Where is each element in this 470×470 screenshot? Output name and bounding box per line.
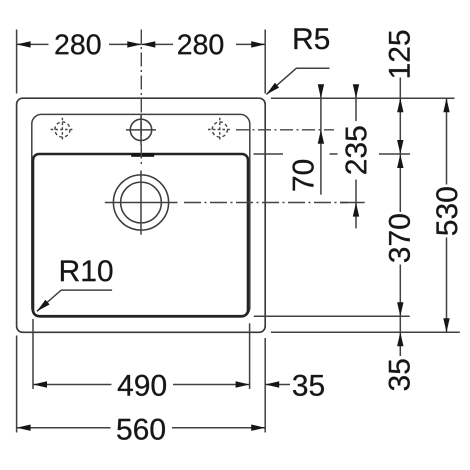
dim line 490 [33, 384, 250, 386]
label 560 [117, 419, 165, 440]
label R10 [61, 260, 112, 281]
extension line bottom sink left [16, 336, 18, 433]
drain crosshair horizontal [105, 202, 178, 204]
label 235 [345, 126, 366, 173]
sink outer outline (560 x 530, R5 corners) [17, 98, 266, 332]
optional tap hole right: crosshair [208, 129, 232, 131]
optional tap hole right: dashed circle [212, 122, 227, 137]
extension line top left [16, 30, 18, 94]
arrow 235 bottom [353, 203, 359, 217]
dim line 35 horizontal [265, 384, 290, 386]
label 530 [436, 187, 457, 235]
dim line 70 [320, 86, 322, 195]
drain inner circle [121, 182, 162, 223]
extension line bowl bottom edge right [254, 315, 410, 317]
arrow 370 top [397, 154, 403, 168]
arrow 70 top [318, 84, 324, 98]
tap centerline horizontal (dash-dot) [236, 129, 334, 131]
arrow 490 left [33, 381, 47, 387]
arrow 530 bottom [443, 318, 449, 332]
optional tap hole left: crosshair [51, 129, 75, 131]
drain centerline solid under 235 arrow [340, 202, 365, 204]
label 280 left [56, 34, 101, 54]
drain centerline extension right (dash-dot) [184, 202, 348, 204]
dim line 280 right [141, 43, 265, 45]
label 35 vertical [389, 359, 410, 390]
dim line 560 [17, 427, 266, 429]
arrow 560 right [251, 425, 265, 431]
arrow 70 bottom [318, 130, 324, 144]
dim line 280 left [17, 43, 142, 45]
label 280 right [178, 34, 223, 54]
leader R10 [37, 290, 112, 311]
arrow 280L right [127, 41, 141, 47]
label 35 horizontal [293, 375, 324, 396]
arrow 125 top [397, 98, 403, 112]
arrow 235 top [353, 84, 359, 98]
label 370 [389, 214, 410, 262]
optional tap hole left: dashed circle [55, 122, 70, 137]
drain crosshair vertical [140, 171, 142, 235]
extension line bowl top edge right [254, 153, 284, 155]
tap slot bar below bowl top edge [131, 153, 154, 157]
label 125 [389, 31, 410, 78]
arrow 125 bottom [397, 140, 403, 154]
arrow 490 right [236, 381, 250, 387]
leader R5 [266, 68, 329, 94]
arrow 560 left [17, 425, 31, 431]
arrow 35 horizontal [265, 381, 279, 387]
tap hole circle [130, 119, 151, 140]
arrow 280L left [17, 41, 31, 47]
extension line sink bottom edge right [271, 331, 460, 333]
label R5 [295, 28, 330, 49]
label 70 [293, 160, 314, 191]
arrow R10 [37, 300, 50, 312]
extension line bottom bowl left [32, 319, 34, 389]
extension line bottom bowl right [249, 323, 251, 389]
arrow R5 [266, 83, 279, 95]
dim line 125 [399, 78, 401, 155]
label 490 [118, 375, 166, 396]
arrow 530 top [443, 98, 449, 112]
arrow 370 bottom [397, 302, 403, 316]
bowl outline (490 x 370, R10 corners) [33, 154, 248, 316]
dim line 370 [399, 154, 401, 316]
dim line 35 vertical [399, 316, 401, 356]
deck inner outline [32, 114, 250, 317]
drain outer circle [113, 175, 168, 230]
extension line sink top edge right [271, 97, 455, 99]
dim line 235 [355, 86, 357, 229]
arrow 280R right [251, 41, 265, 47]
extension line bottom sink right [264, 338, 266, 433]
arrow 35 vertical [397, 332, 403, 346]
extension line top right [264, 30, 266, 94]
arrow 280R left [141, 41, 155, 47]
tap hole crosshair [126, 129, 156, 131]
tap centerline vertical (dash-dot) [140, 30, 142, 167]
dim line 530 [446, 98, 448, 332]
